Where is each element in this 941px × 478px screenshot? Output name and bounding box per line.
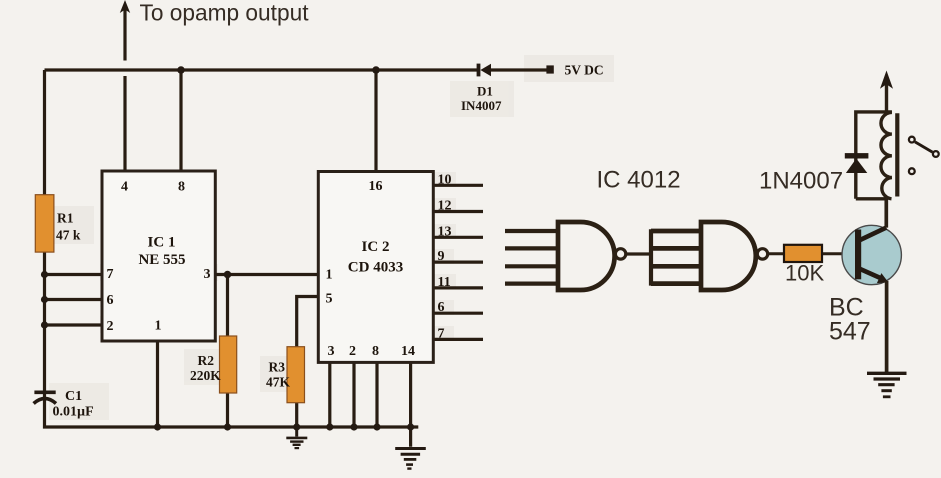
svg-text:To opamp output: To opamp output: [140, 0, 310, 25]
svg-text:2: 2: [107, 319, 114, 334]
svg-text:547: 547: [829, 318, 871, 346]
svg-text:3: 3: [328, 344, 335, 359]
svg-text:1: 1: [155, 319, 162, 334]
svg-text:14: 14: [401, 344, 415, 359]
svg-text:10K: 10K: [785, 261, 824, 286]
svg-text:12: 12: [438, 199, 452, 214]
svg-text:10: 10: [438, 172, 452, 187]
svg-text:1: 1: [326, 268, 333, 283]
svg-text:2: 2: [349, 344, 356, 359]
svg-text:5V DC: 5V DC: [565, 63, 604, 78]
svg-text:IC 1: IC 1: [148, 235, 176, 251]
svg-text:1N4007: 1N4007: [759, 168, 843, 195]
svg-text:3: 3: [204, 267, 211, 282]
svg-text:C1: C1: [65, 389, 82, 404]
svg-text:7: 7: [438, 326, 445, 341]
svg-text:8: 8: [178, 180, 185, 195]
svg-text:R2: R2: [198, 353, 215, 368]
svg-text:0.01µF: 0.01µF: [53, 405, 94, 420]
svg-text:R1: R1: [57, 211, 74, 226]
svg-text:47 k: 47 k: [56, 228, 81, 243]
svg-text:11: 11: [438, 275, 451, 290]
svg-text:4: 4: [121, 180, 128, 195]
svg-text:13: 13: [438, 224, 452, 239]
svg-text:9: 9: [438, 249, 445, 264]
svg-text:6: 6: [107, 293, 114, 308]
svg-text:5: 5: [326, 292, 333, 307]
svg-text:IN4007: IN4007: [461, 98, 502, 113]
svg-text:16: 16: [369, 179, 383, 194]
svg-text:CD 4033: CD 4033: [348, 260, 403, 276]
svg-text:IC 4012: IC 4012: [597, 167, 681, 194]
svg-text:IC 2: IC 2: [362, 239, 390, 255]
svg-text:7: 7: [107, 267, 114, 282]
svg-text:D1: D1: [477, 84, 493, 99]
svg-text:R3: R3: [269, 360, 286, 375]
svg-text:6: 6: [438, 300, 445, 315]
svg-text:NE 555: NE 555: [138, 252, 185, 268]
svg-text:220K: 220K: [190, 368, 221, 383]
svg-text:47K: 47K: [266, 375, 291, 390]
svg-text:8: 8: [372, 344, 379, 359]
